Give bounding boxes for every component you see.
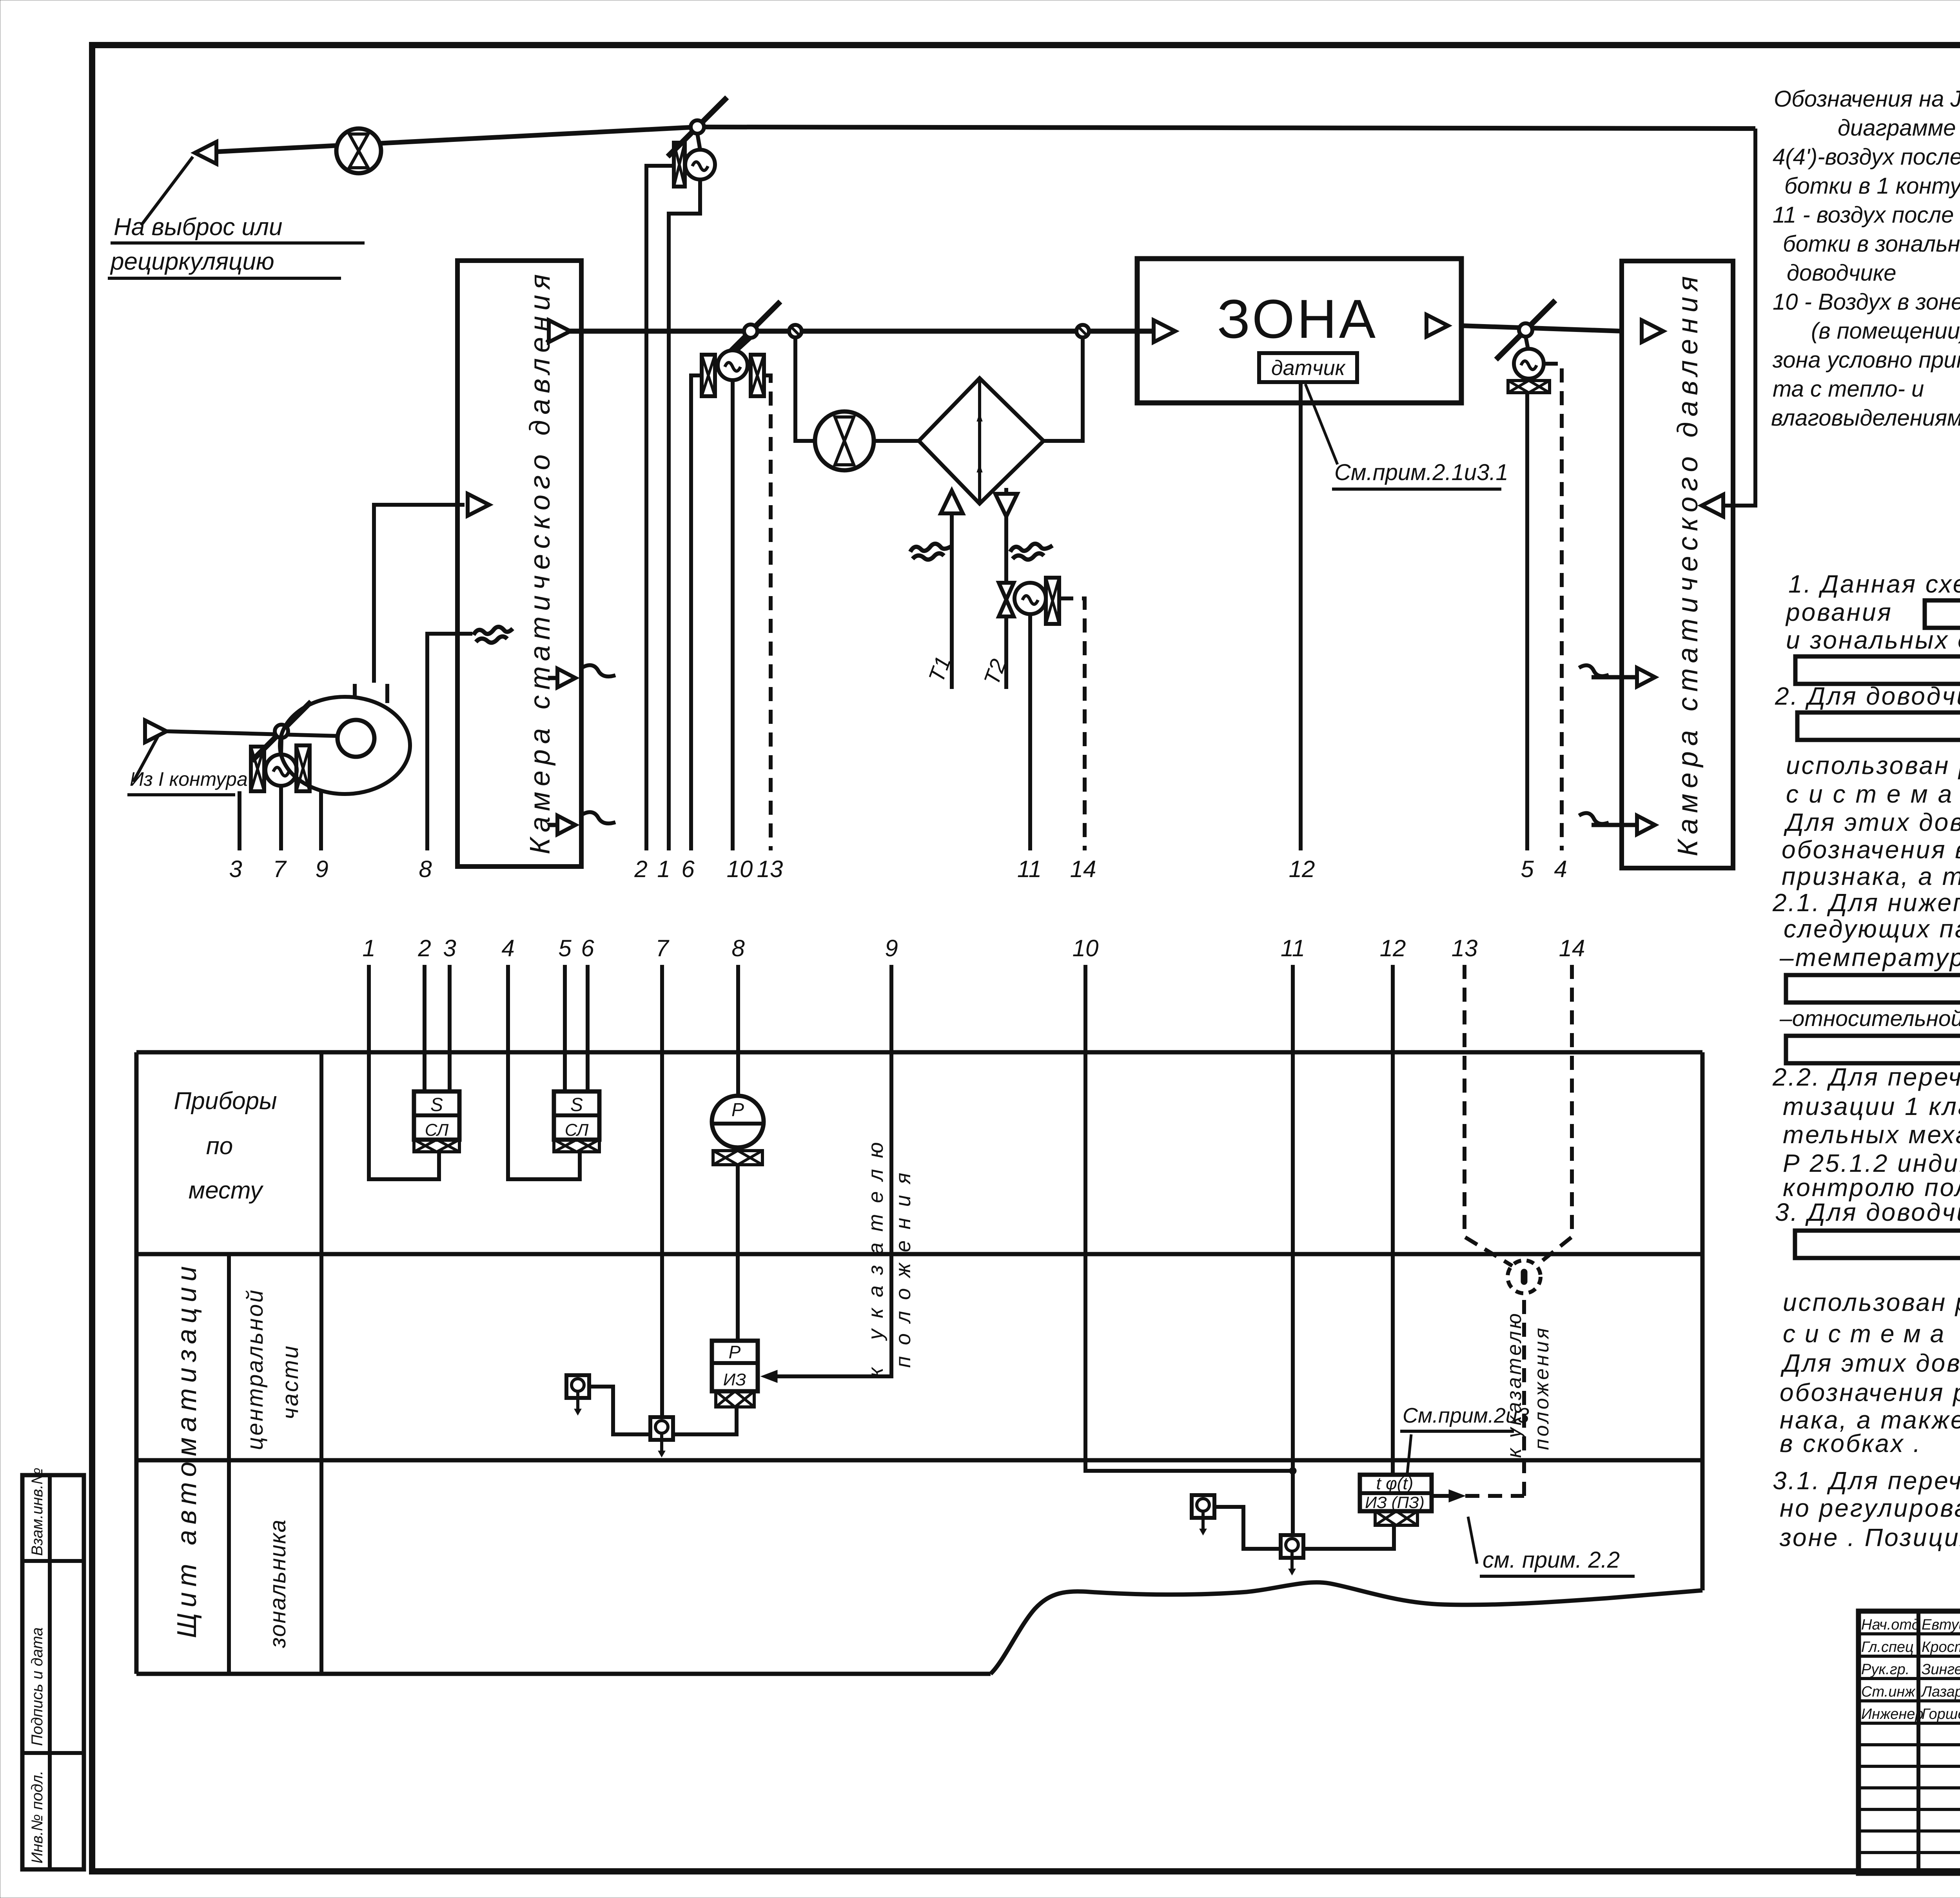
arrow T1 up (941, 491, 963, 513)
label Щит автоматизации (171, 1261, 202, 1638)
svg-text:S: S (430, 1095, 443, 1115)
svg-text:к указателю: к указателю (864, 1131, 887, 1378)
wire 11 run (1289, 965, 1296, 1535)
svg-text:S: S (570, 1095, 583, 1115)
wire 4 loop to S2 (508, 965, 580, 1179)
left plenum outlet stub 2 (548, 812, 615, 834)
table lead 13 (dashed) (1463, 965, 1466, 1052)
label зональника (265, 1519, 290, 1648)
svg-text:4: 4 (1554, 856, 1567, 882)
svg-text:та с тепло- и: та с тепло- и (1773, 376, 1924, 402)
svg-text:и зональных доводчиков: и зональных доводчиков (1786, 626, 1960, 654)
chart legend text (1771, 86, 1960, 431)
svg-text:3. Для доводчиков: 3. Для доводчиков (1775, 1198, 1960, 1226)
pedestal M3 (1508, 381, 1550, 393)
svg-text:следующих параметров воздуха: следующих параметров воздуха в обслужива… (1784, 915, 1960, 943)
svg-text:–относительной влажности, дово: –относительной влажности, доводчика (1779, 1006, 1960, 1031)
svg-text:Из I контура: Из I контура (130, 768, 248, 790)
fan F1 (336, 129, 381, 173)
pipe T1 (950, 514, 954, 689)
svg-text:Камера статического давления: Камера статического давления (1672, 271, 1704, 856)
label ЗОНА (1217, 288, 1378, 350)
return pipe (1722, 129, 1755, 506)
wire 7 into Q2 (660, 965, 664, 1417)
svg-text:Для этих доводчиков в условном: Для этих доводчиков в условном изображен… (1784, 808, 1960, 836)
label T2 (979, 656, 1011, 688)
zone box (1137, 259, 1461, 403)
valve body V2a (702, 355, 715, 396)
wire 1 loop to S1 (369, 965, 439, 1179)
svg-text:положения: положения (1530, 1325, 1553, 1450)
wire 12 run (1391, 965, 1395, 1475)
svg-text:См.прим.2.1и3.1: См.прим.2.1и3.1 (1334, 460, 1508, 485)
regulator Р/ИЗ (712, 1341, 758, 1407)
svg-text:2.2. Для перечисленных в пу: 2.2. Для перечисленных в пункте 2 доводч… (1772, 1063, 1960, 1091)
svg-text:t φ(t): t φ(t) (1376, 1474, 1414, 1493)
wire P to regulator (736, 1165, 740, 1341)
svg-text:доводчике: доводчике (1787, 260, 1896, 286)
coil inner arrows (977, 413, 982, 472)
supply pipe (547, 329, 1154, 334)
wire 10 run (1085, 965, 1293, 1471)
svg-text:9: 9 (885, 935, 898, 961)
wire 2 (from V1) (646, 166, 674, 850)
svg-text:Ст.инж: Ст.инж (1861, 1684, 1916, 1700)
stamp strip (Инв/Подпись/Взам) (22, 1468, 84, 1869)
svg-text:Приборы: Приборы (174, 1088, 277, 1115)
title block names (1861, 1617, 1960, 1722)
coil diamond (919, 378, 1044, 504)
label См.прим.2.1и3.1 (1332, 460, 1508, 489)
svg-text:ботки в 1 контуре: ботки в 1 контуре (1784, 173, 1960, 199)
inlet arrow (Из I контура) (145, 720, 167, 742)
regulator output arrow (1432, 1490, 1465, 1502)
svg-text:рования: рования (1785, 598, 1893, 626)
label к указателю положения #2 (1503, 1311, 1553, 1458)
svg-text:Лазаренко: Лазаренко (1920, 1684, 1960, 1700)
svg-text:Р: Р (731, 1100, 744, 1120)
leader см.прим.2.1и3.1 (1305, 384, 1338, 464)
wire Q4-regulator (1303, 1525, 1394, 1549)
svg-text:СЛ: СЛ (565, 1120, 589, 1140)
datchik box (1259, 353, 1357, 382)
wire 5 (1525, 393, 1529, 850)
wire 7 (279, 786, 283, 850)
label См.прим.2и3 (1400, 1404, 1529, 1474)
wire 2 into S1 (423, 965, 426, 1091)
selector Q3 (1192, 1495, 1214, 1535)
arrow T2 down (995, 494, 1017, 517)
wire 11 (1028, 614, 1032, 850)
label см. прим. 2.2 (1468, 1517, 1635, 1576)
svg-text:2: 2 (417, 935, 431, 961)
svg-text:1: 1 (657, 856, 670, 882)
svg-text:см. прим. 2.2: см. прим. 2.2 (1483, 1547, 1620, 1573)
blower discharge arrow (468, 494, 489, 516)
svg-text:2.1. Для нижеперечисленных до: 2.1. Для нижеперечисленных доводчиков пр… (1772, 888, 1960, 917)
exhaust arrow (195, 142, 216, 164)
svg-text:к указателю: к указателю (1503, 1311, 1526, 1458)
table lead 14 (dashed) (1570, 965, 1574, 1052)
svg-text:рециркуляцию: рециркуляцию (110, 248, 274, 275)
svg-text:Евтушенко: Евтушенко (1922, 1617, 1960, 1633)
svg-text:10: 10 (1073, 935, 1099, 961)
svg-text:но регулирование температуры: но регулирование температуры воздуха в о… (1780, 1494, 1960, 1522)
svg-text:8: 8 (419, 856, 432, 882)
damper D3 link (1526, 337, 1528, 349)
svg-text:Р: Р (729, 1342, 741, 1362)
svg-text:4(4')-воздух после обра-: 4(4')-воздух после обра- (1773, 144, 1960, 170)
label к указателю положения #1 (864, 1131, 915, 1378)
supply arrow a (549, 320, 570, 342)
wire 3 (238, 791, 241, 850)
svg-text:Кросташевскии: Кросташевскии (1922, 1639, 1960, 1655)
wire 3 into S1 (448, 965, 452, 1091)
svg-text:1. Данная схема применена для: 1. Данная схема применена для следующих … (1788, 570, 1960, 598)
selector Q2 (650, 1417, 673, 1457)
pipe T2 lower (1004, 616, 1008, 689)
svg-text:Взам.инв.№: Взам.инв.№ (29, 1468, 46, 1556)
svg-text:5: 5 (558, 935, 572, 961)
left plenum box (457, 261, 581, 867)
squiggle T1 (910, 544, 953, 559)
svg-text:2. Для доводчиков: 2. Для доводчиков (1775, 682, 1960, 710)
svg-text:обозначения возможных регулиру: обозначения возможных регулируемых велич… (1782, 836, 1960, 864)
svg-text:На выброс или: На выброс или (114, 214, 282, 241)
valve body V2b (751, 355, 764, 396)
svg-text:3.1. Для перечисленных в п: 3.1. Для перечисленных в пункте 3 доводч… (1773, 1467, 1960, 1495)
svg-text:1: 1 (362, 935, 375, 961)
label центральной части (242, 1288, 303, 1450)
wire 1 (from M1) (669, 179, 700, 850)
svg-text:ЗОНА: ЗОНА (1217, 288, 1378, 350)
svg-text:датчик: датчик (1271, 356, 1346, 380)
right plenum stub 2 (1579, 813, 1655, 834)
right plenum label (1672, 271, 1704, 856)
valve T2 bowtie (999, 583, 1014, 616)
svg-text:3: 3 (229, 856, 242, 882)
svg-text:Инв.№ подл.: Инв.№ подл. (29, 1771, 46, 1864)
svg-text:14: 14 (1559, 935, 1585, 961)
svg-text:12: 12 (1380, 935, 1406, 961)
bypass loop right (1044, 337, 1083, 441)
damper D4 link (281, 738, 281, 754)
wire 10 (731, 380, 735, 850)
svg-text:5: 5 (1521, 856, 1534, 882)
wire 14 (dashed) (1059, 598, 1085, 850)
label Из I контура (127, 735, 248, 795)
svg-text:тельных механизмов по встр: тельных механизмов по встроенному в регу… (1783, 1120, 1960, 1149)
valve body V4a (251, 747, 264, 791)
left plenum label (524, 269, 556, 854)
dashed funnel leg 14 (1536, 965, 1572, 1266)
blower (centrifugal fan) (280, 684, 410, 794)
junction J2 (1076, 325, 1089, 337)
svg-text:4: 4 (501, 935, 514, 961)
notes text (1772, 570, 1960, 1553)
damper D1 link (697, 134, 700, 150)
zone inlet arrow (1154, 320, 1175, 342)
selector Q1 (566, 1375, 589, 1415)
svg-text:11 - воздух после обра-: 11 - воздух после обра- (1773, 202, 1960, 228)
pipe T2 upper (1004, 488, 1008, 583)
inlet pipe (167, 731, 339, 736)
gauge P (712, 1096, 764, 1165)
svg-text:Подпись и дата: Подпись и дата (29, 1627, 46, 1746)
svg-text:месту: месту (189, 1177, 264, 1204)
left plenum outlet stub 1 (548, 665, 615, 687)
svg-text:использован регулирующий прибо: использован регулирующий прибор Р 25.1.2… (1786, 751, 1960, 780)
dashed link to indicator (1465, 1293, 1524, 1496)
svg-text:2: 2 (634, 856, 647, 882)
torn edge (991, 1583, 1702, 1674)
svg-text:положения: положения (891, 1162, 915, 1368)
motor M4 (265, 754, 297, 786)
wire Q1-Q2 (589, 1387, 650, 1434)
instrument S/СЛ #1 (414, 1091, 459, 1152)
svg-text:Обозначения на J-d: Обозначения на J-d (1774, 86, 1960, 112)
svg-text:части: части (278, 1344, 303, 1419)
svg-text:12: 12 (1289, 856, 1315, 882)
svg-text:Зингерман: Зингерман (1922, 1661, 1960, 1678)
wire 8 (427, 634, 472, 850)
bypass pipe to coil (874, 439, 919, 443)
svg-text:7: 7 (273, 856, 287, 882)
wire 6 into S2 (586, 965, 590, 1091)
svg-text:13: 13 (1452, 935, 1478, 961)
instrument S/СЛ #2 (554, 1091, 599, 1152)
wire 4 (dashed) (1544, 364, 1562, 850)
svg-text:ИЗ (ПЗ): ИЗ (ПЗ) (1365, 1493, 1425, 1512)
svg-text:Рук.гр.: Рук.гр. (1861, 1661, 1909, 1678)
line numbers row A (229, 856, 1567, 882)
valve body V5 (1046, 578, 1059, 624)
svg-text:7: 7 (655, 935, 670, 961)
right plenum stub 1 (1579, 665, 1655, 687)
svg-text:система автоматизации: система автоматизации 1 класса. (1786, 780, 1960, 808)
damper D2 (721, 301, 780, 361)
svg-text:система автоматизации: система автоматизации 2 класса (1783, 1320, 1960, 1348)
label На выброс или рециркуляцию (108, 157, 365, 278)
svg-text:Для этих доводчиков в усло: Для этих доводчиков в условном изображен… (1780, 1349, 1960, 1377)
svg-text:–температуры, доводчика: –температуры, доводчика (1779, 943, 1960, 972)
label T1 (924, 653, 956, 685)
svg-text:признака, а также позиции рег: признака, а также позиции регулирующих п… (1782, 862, 1960, 890)
svg-text:центральной: центральной (242, 1288, 268, 1450)
svg-text:Горшенина: Горшенина (1922, 1706, 1960, 1722)
damper D3 (1496, 300, 1555, 359)
title block grid left (1858, 1611, 1960, 1873)
wire 5 into S2 (563, 965, 567, 1091)
valve body V4b (296, 745, 310, 791)
zone outlet pipe (1461, 326, 1623, 331)
fan F2 (815, 412, 874, 470)
svg-text:Гл.спец: Гл.спец (1861, 1639, 1914, 1655)
indicator circle (dashed) (1508, 1260, 1541, 1293)
motor M5 (1014, 583, 1046, 614)
damper D2 link (737, 338, 751, 350)
svg-text:6: 6 (581, 935, 594, 961)
svg-text:Щит автоматизации: Щит автоматизации (171, 1261, 202, 1638)
table grid (136, 1052, 1702, 1674)
table lead 6 (586, 965, 590, 1052)
svg-text:Камера статического давления: Камера статического давления (524, 269, 556, 854)
line numbers row B (362, 935, 1585, 961)
svg-text:ботки в зональном: ботки в зональном (1783, 231, 1960, 257)
exhaust pipe (195, 127, 1755, 153)
right plenum inlet arrow (1642, 320, 1663, 342)
table lead 3 (448, 965, 452, 1052)
damper D4 (252, 702, 311, 761)
svg-text:в скобках .: в скобках . (1780, 1429, 1922, 1457)
svg-text:13: 13 (757, 856, 783, 882)
svg-text:контролю положения показаны: контролю положения показаны штриховой ли… (1783, 1173, 1960, 1202)
svg-text:14: 14 (1070, 856, 1096, 882)
svg-text:тизации 1 класса ) предусмот: тизации 1 класса ) предусмотрен контроль… (1783, 1092, 1960, 1120)
svg-text:Нач.отд: Нач.отд (1861, 1617, 1920, 1633)
blower discharge pipe (374, 505, 465, 683)
svg-text:по: по (206, 1133, 233, 1160)
svg-text:6: 6 (681, 856, 695, 882)
right plenum box (1622, 261, 1733, 868)
table lead 5 (563, 965, 567, 1052)
damper D1 (668, 97, 727, 156)
wire 9 to regulator (761, 965, 891, 1383)
return arrow (1702, 495, 1723, 517)
wire Q2-regulator (673, 1407, 737, 1434)
svg-text:зона условно приня-: зона условно приня- (1772, 347, 1960, 373)
motor M1 (685, 150, 715, 179)
wire 8 into P (736, 965, 740, 1096)
svg-text:9: 9 (315, 856, 328, 882)
svg-text:ИЗ: ИЗ (723, 1370, 746, 1389)
zone outlet arrow (1426, 315, 1448, 337)
wire 13 (dashed) (764, 375, 771, 850)
wire 9 (319, 791, 323, 850)
svg-text:СЛ: СЛ (425, 1120, 449, 1140)
svg-text:8: 8 (731, 935, 745, 961)
wire Q3-Q4 (1214, 1507, 1281, 1549)
wire 12 (1299, 382, 1303, 850)
wire 6 (691, 375, 702, 850)
regulator t/φ(t) (1360, 1474, 1432, 1525)
dashed funnel leg 13 (1465, 965, 1512, 1266)
svg-text:(в помещении) -: (в помещении) - (1811, 318, 1960, 344)
svg-text:диаграмме: диаграмме (1838, 115, 1956, 141)
svg-text:обозначения регулируемой вел: обозначения регулируемой величины и функ… (1780, 1378, 1960, 1407)
valve body V1 (674, 143, 685, 187)
svg-text:11: 11 (1281, 935, 1305, 961)
junction J1 (789, 325, 802, 337)
label Приборы по месту (174, 1088, 277, 1204)
svg-text:зональника: зональника (265, 1519, 290, 1648)
motor M3 (1514, 349, 1544, 379)
sensor squiggle 8 (474, 627, 513, 642)
svg-text:3: 3 (443, 935, 456, 961)
svg-text:Инженер: Инженер (1861, 1706, 1924, 1722)
bypass loop left (795, 337, 815, 441)
svg-text:10: 10 (727, 856, 753, 882)
svg-text:10 - Воздух в зоне: 10 - Воздух в зоне (1773, 289, 1960, 315)
squiggle T2 (1010, 544, 1053, 559)
svg-text:11: 11 (1017, 856, 1042, 882)
table lead 2 (423, 965, 426, 1052)
motor M2 (718, 350, 748, 380)
svg-text:использован регулирующий приб: использован регулирующий прибор РТЗ с им… (1783, 1288, 1960, 1316)
svg-text:зоне . Позиция датчика: зоне . Позиция датчика (1779, 1523, 1960, 1552)
svg-text:влаговыделениями: влаговыделениями (1771, 405, 1960, 431)
selector Q4 (1281, 1535, 1303, 1575)
